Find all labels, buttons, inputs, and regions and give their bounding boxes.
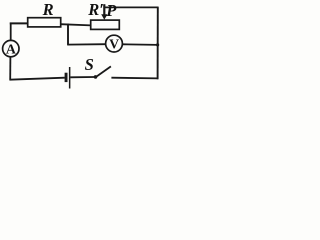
junction drop wire: [67, 24, 69, 45]
svg-text:R: R: [42, 0, 54, 19]
rheostat slider arrow: [101, 4, 107, 20]
junction dot: [156, 43, 159, 46]
rheostat R' body: [91, 20, 120, 29]
wire right rail: [157, 7, 159, 79]
switch S pivot: [94, 75, 98, 79]
wire left rail lower: [9, 57, 11, 80]
resistor R body: [28, 18, 61, 27]
wire battery to switch: [70, 76, 94, 78]
voltmeter left wire: [67, 43, 105, 45]
ammeter A: [3, 40, 19, 56]
wire top-left horizontal: [10, 22, 29, 24]
wire bottom right: [111, 77, 158, 80]
battery cell: long thin plate: [69, 67, 71, 89]
svg-text:P: P: [105, 1, 117, 20]
voltmeter right wire: [123, 43, 159, 46]
background: [0, 0, 163, 90]
wire bottom left: [9, 78, 64, 80]
svg-text:A: A: [6, 41, 16, 56]
wire R to rheostat: [61, 24, 91, 25]
svg-text:R′: R′: [87, 0, 104, 19]
wire top right (slider to rail): [104, 6, 158, 8]
svg-text:V: V: [109, 37, 119, 52]
battery cell: short thick plate: [65, 73, 68, 82]
wire left rail upper: [10, 23, 12, 41]
switch lever: [96, 66, 111, 77]
voltmeter V: [106, 35, 123, 52]
svg-text:S: S: [85, 55, 94, 74]
